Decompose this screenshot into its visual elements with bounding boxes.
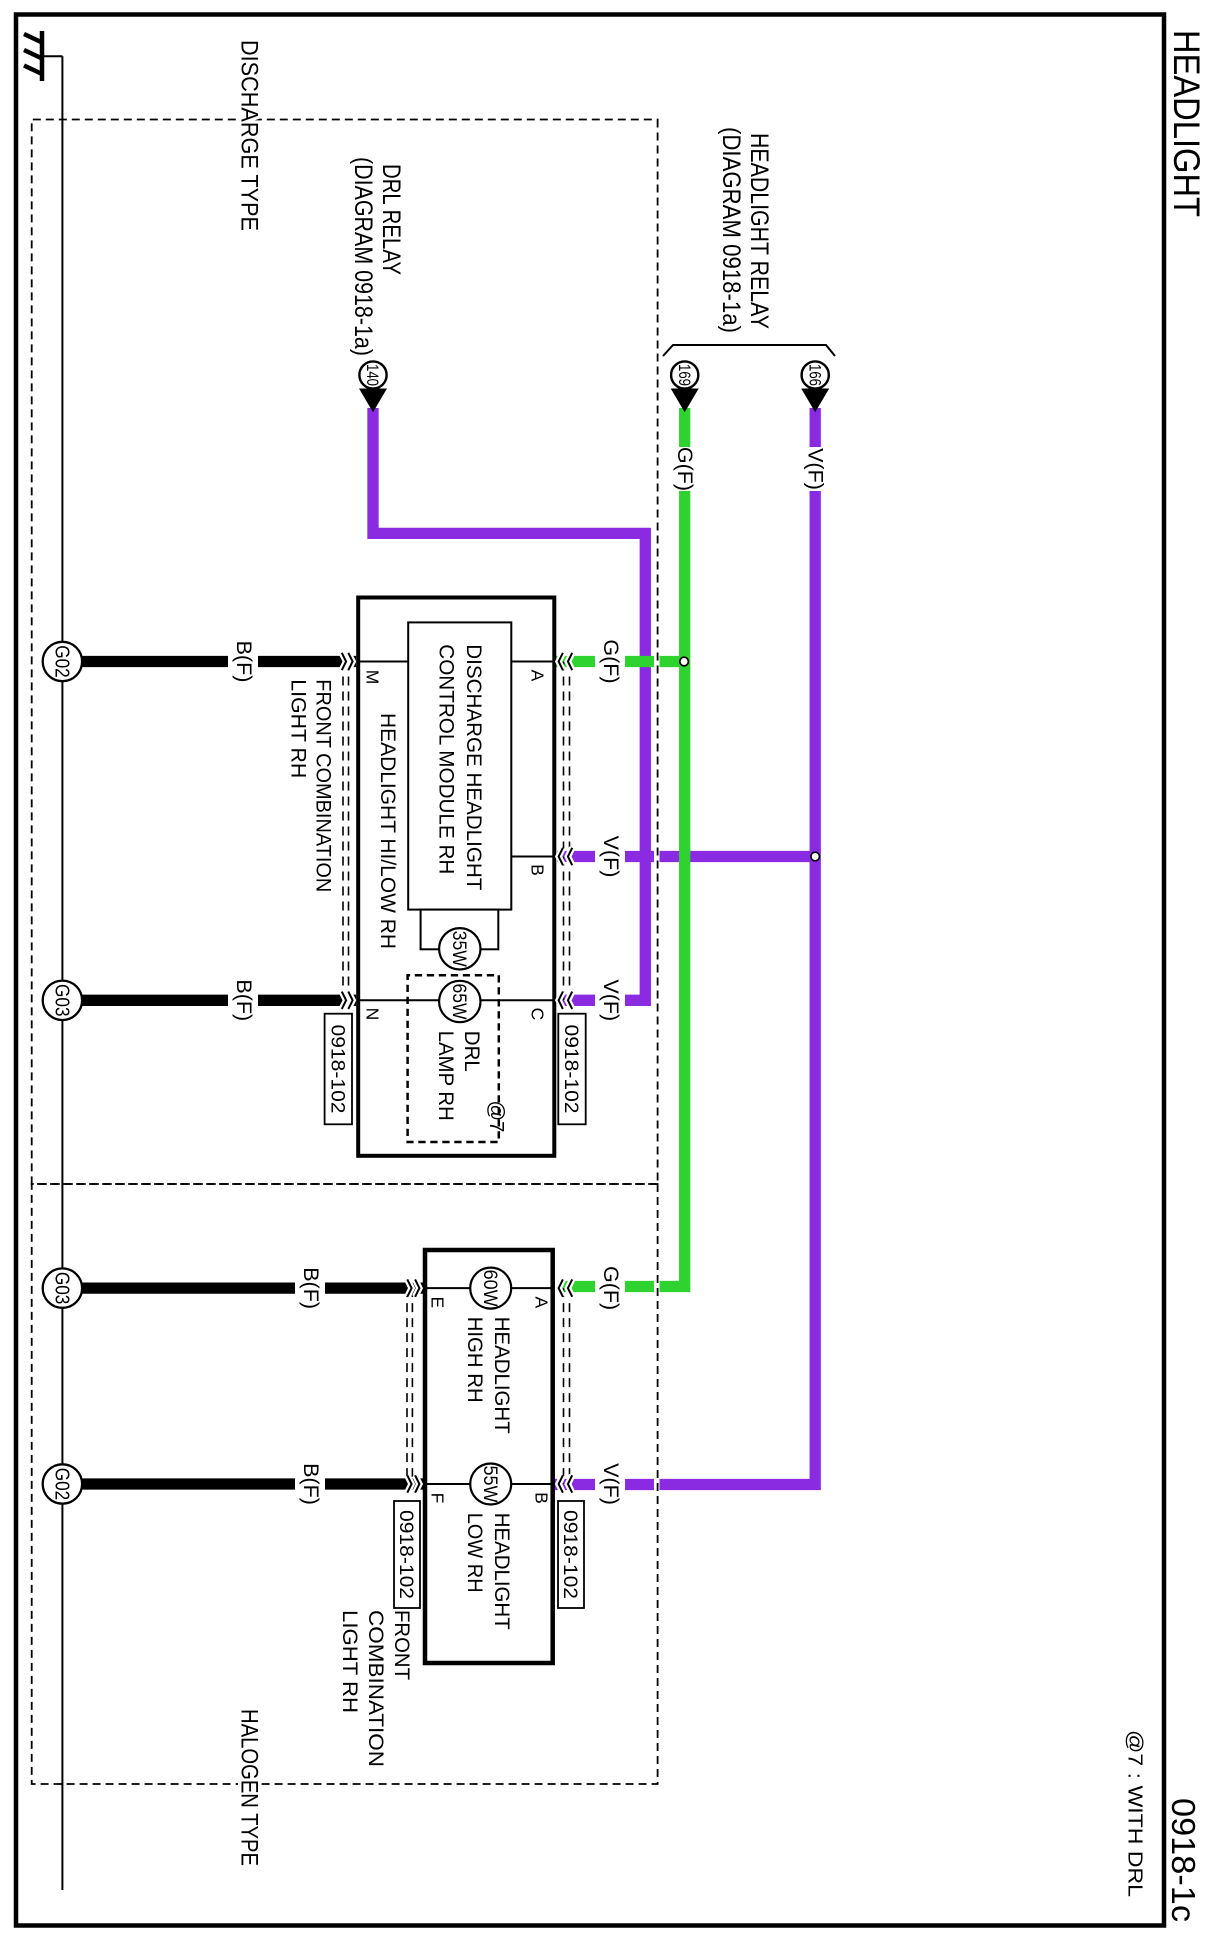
label FRONT COMBINATION LIGHT RH (halogen)	[338, 1610, 413, 1767]
svg-text:55W: 55W	[479, 1466, 500, 1503]
component box halogen headlight	[425, 1250, 553, 1663]
inner wire pin N to pin C through DRL lamp	[358, 999, 554, 1001]
svg-text:(DIAGRAM 0918-1a): (DIAGRAM 0918-1a)	[349, 157, 377, 356]
chevrons pin A	[559, 653, 573, 670]
svg-text:V(F): V(F)	[804, 448, 828, 490]
connector dashes module bottom	[343, 662, 349, 1001]
svg-text:G(F): G(F)	[599, 1266, 623, 1310]
wire label V(F) pin C	[595, 978, 625, 1023]
svg-text:G(F): G(F)	[673, 447, 697, 491]
label HEADLIGHT LOW RH	[463, 1513, 513, 1630]
wire label B(F) pin E	[295, 1266, 325, 1311]
svg-text:N: N	[363, 1008, 383, 1021]
lamp notch for 35W bulb	[421, 910, 499, 950]
box DISCHARGE HEADLIGHT CONTROL MODULE RH	[408, 622, 511, 909]
svg-text:FRONT COMBINATION: FRONT COMBINATION	[312, 679, 335, 892]
label FRONT COMBINATION LIGHT RH (discharge)	[287, 679, 335, 892]
ground wire B(F) to module pin N	[82, 995, 356, 1006]
svg-text:HEADLIGHT: HEADLIGHT	[490, 1513, 513, 1630]
connector dashes module top	[564, 662, 570, 1001]
ground G02 (halogen)	[43, 1464, 82, 1503]
dashed box DRL LAMP RH (@7 option)	[408, 975, 499, 1142]
svg-text:169: 169	[675, 364, 693, 386]
svg-text:G03: G03	[51, 1272, 73, 1305]
connector dashes halogen bottom	[407, 1288, 412, 1484]
wire label B(F) pin M	[228, 639, 258, 684]
chevrons pin B	[559, 848, 573, 865]
svg-text:M: M	[363, 670, 383, 685]
svg-text:COMBINATION: COMBINATION	[364, 1610, 387, 1767]
chevrons pin A halogen	[559, 1279, 573, 1296]
wire label B(F) pin F	[295, 1462, 325, 1507]
svg-text:C: C	[528, 1008, 548, 1021]
svg-text:E: E	[427, 1296, 447, 1308]
svg-text:FRONT: FRONT	[390, 1610, 413, 1680]
svg-text:A: A	[528, 670, 548, 682]
ground symbol	[24, 31, 62, 81]
svg-text:B(F): B(F)	[232, 979, 256, 1021]
svg-text:G02: G02	[51, 645, 73, 678]
svg-text:LIGHT RH: LIGHT RH	[287, 679, 310, 778]
svg-text:@7: @7	[485, 1101, 507, 1133]
wire label G(F) pin A	[595, 639, 625, 684]
svg-text:HEADLIGHT: HEADLIGHT	[1166, 30, 1205, 217]
svg-text:DRL: DRL	[460, 1031, 483, 1072]
connector label 0918-102 (halogen bottom)	[394, 1501, 420, 1608]
wire label G(F) pin A halogen	[595, 1266, 625, 1311]
inner wire pin F to pin B	[425, 1483, 553, 1485]
svg-text:140: 140	[363, 364, 381, 386]
wire G(F) tap to module pin A (green)	[556, 656, 685, 667]
connector label 0918-102 (halogen top)	[558, 1501, 584, 1608]
svg-text:B(F): B(F)	[299, 1463, 323, 1505]
wire label B(F) pin N	[228, 978, 258, 1023]
ground bus wire	[61, 56, 63, 1890]
inner wire pin B to control module	[511, 856, 554, 858]
connector dashes halogen top	[564, 1288, 570, 1484]
chevrons pin M	[342, 653, 353, 670]
svg-text:B(F): B(F)	[299, 1267, 323, 1309]
arrow from headlight relay, circuit 166	[801, 361, 829, 412]
svg-text:HEADLIGHT HI/LOW RH: HEADLIGHT HI/LOW RH	[376, 713, 399, 949]
svg-text:G03: G03	[51, 984, 73, 1017]
dashed box HALOGEN TYPE	[32, 1184, 658, 1784]
svg-text:DISCHARGE TYPE: DISCHARGE TYPE	[235, 40, 262, 231]
svg-text:166: 166	[805, 364, 823, 386]
svg-text:LIGHT RH: LIGHT RH	[338, 1610, 361, 1713]
svg-text:V(F): V(F)	[599, 836, 623, 878]
connector label 0918-102 (module bottom)	[325, 1014, 352, 1125]
svg-text:V(F): V(F)	[599, 1463, 623, 1505]
svg-text:LAMP RH: LAMP RH	[434, 1031, 457, 1121]
svg-text:B: B	[531, 1492, 551, 1504]
svg-text:A: A	[531, 1296, 551, 1308]
svg-text:HALOGEN TYPE: HALOGEN TYPE	[235, 1709, 262, 1866]
arrow from DRL relay, circuit 140	[359, 361, 387, 412]
bulb 65W (DRL lamp)	[439, 981, 480, 1022]
wire label V(F) pin B	[595, 834, 625, 879]
svg-text:0918-102: 0918-102	[560, 1025, 582, 1114]
svg-text:0918-102: 0918-102	[327, 1025, 349, 1114]
svg-text:B: B	[528, 864, 548, 876]
svg-text:CONTROL MODULE RH: CONTROL MODULE RH	[434, 644, 457, 874]
bulb 35W	[439, 928, 480, 969]
wire label V(F) pin B halogen	[595, 1462, 625, 1507]
junction dot on G(F)	[680, 657, 689, 666]
junction dot on V(F)	[811, 852, 820, 861]
wire label V(F) at relay 166	[801, 447, 830, 491]
svg-text:F: F	[427, 1493, 447, 1504]
svg-text:0918-102: 0918-102	[559, 1510, 581, 1599]
svg-text:@7 : WITH DRL: @7 : WITH DRL	[1124, 1730, 1146, 1897]
chevrons pin B halogen	[559, 1475, 573, 1492]
chevrons pin N	[342, 992, 353, 1009]
label HEADLIGHT HIGH RH	[463, 1317, 513, 1434]
ground wire B(F) to module pin M	[82, 656, 356, 667]
ground G03 (discharge)	[43, 981, 82, 1020]
svg-text:0918-102: 0918-102	[395, 1510, 417, 1599]
inner wire pin A to control module	[511, 661, 554, 663]
svg-text:HEADLIGHT: HEADLIGHT	[490, 1317, 513, 1434]
svg-text:V(F): V(F)	[599, 979, 623, 1021]
svg-text:DRL RELAY: DRL RELAY	[377, 164, 405, 275]
svg-text:HIGH RH: HIGH RH	[463, 1317, 486, 1403]
wire G(F) from headlight relay 169 (green)	[558, 408, 685, 1287]
HEADLIGHT relay label	[717, 127, 773, 333]
inner wire pin M to control module	[358, 661, 408, 663]
component box HEADLIGHT HI/LOW RH	[358, 598, 554, 1156]
brace grouping headlight relay wires	[663, 345, 835, 356]
svg-text:HEADLIGHT RELAY: HEADLIGHT RELAY	[745, 133, 773, 329]
wire V(F) from headlight relay 166 (purple)	[554, 408, 815, 1485]
bulb 55W (headlight low)	[470, 1464, 511, 1505]
chevrons pin E	[407, 1279, 419, 1296]
svg-text:B(F): B(F)	[232, 641, 256, 683]
svg-text:0918-1c: 0918-1c	[1165, 1798, 1202, 1922]
svg-text:G02: G02	[51, 1468, 73, 1501]
ground G03 (halogen)	[43, 1268, 82, 1307]
ground wire B(F) to halogen pin F	[82, 1478, 423, 1489]
chevrons pin F	[407, 1475, 419, 1492]
DRL relay label	[349, 157, 405, 356]
bulb 60W (headlight high)	[470, 1268, 511, 1309]
svg-text:65W: 65W	[448, 984, 469, 1020]
wire V(F) from DRL relay 140 to module pin C (purple)	[373, 408, 645, 1000]
svg-text:LOW RH: LOW RH	[463, 1513, 486, 1593]
inner wire pin E to pin A	[425, 1287, 553, 1289]
svg-text:35W: 35W	[448, 931, 469, 967]
svg-text:DISCHARGE HEADLIGHT: DISCHARGE HEADLIGHT	[462, 644, 485, 890]
arrow from headlight relay, circuit 169	[671, 361, 699, 412]
svg-text:G(F): G(F)	[599, 639, 623, 683]
wire V(F) tap to module pin B (purple)	[557, 851, 815, 862]
ground wire B(F) to halogen pin E	[82, 1282, 423, 1293]
ground G02 (discharge)	[43, 642, 82, 681]
wire label G(F) at relay 169	[670, 447, 699, 491]
dashed box DISCHARGE TYPE	[32, 120, 658, 1185]
svg-text:60W: 60W	[479, 1270, 500, 1307]
svg-text:(DIAGRAM 0918-1a): (DIAGRAM 0918-1a)	[717, 127, 745, 333]
label DRL LAMP RH	[434, 1031, 483, 1121]
chevrons pin C	[559, 992, 573, 1009]
connector label 0918-102 (module top)	[558, 1014, 585, 1125]
